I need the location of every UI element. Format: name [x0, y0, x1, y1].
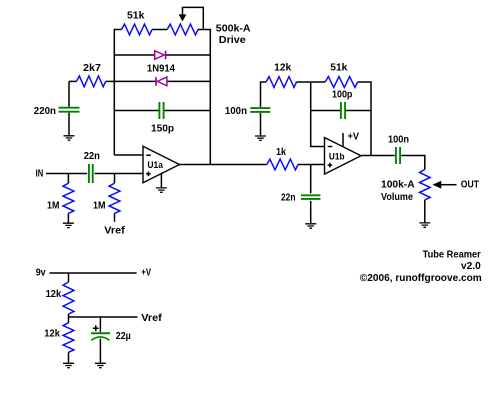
svg-text:22µ: 22µ: [116, 331, 131, 342]
svg-text:Vref: Vref: [141, 313, 162, 324]
svg-text:©2006, runoffgroove.com: ©2006, runoffgroove.com: [360, 273, 482, 284]
svg-text:IN: IN: [36, 168, 44, 179]
svg-text:1M: 1M: [93, 201, 106, 212]
svg-text:22n: 22n: [281, 192, 296, 203]
svg-text:1N914: 1N914: [147, 63, 176, 74]
svg-text:1k: 1k: [276, 147, 286, 158]
svg-text:1M: 1M: [47, 201, 59, 212]
svg-text:500k-A: 500k-A: [216, 23, 251, 34]
svg-text:12k: 12k: [46, 289, 62, 300]
svg-text:Tube Reamer: Tube Reamer: [423, 250, 481, 261]
svg-text:2k7: 2k7: [83, 63, 101, 74]
svg-text:51k: 51k: [127, 11, 145, 22]
svg-text:12k: 12k: [274, 63, 291, 74]
svg-text:+V: +V: [348, 131, 360, 142]
svg-text:U1a: U1a: [147, 160, 163, 170]
svg-text:Volume: Volume: [381, 192, 413, 203]
svg-text:100k-A: 100k-A: [381, 180, 415, 191]
svg-text:Vref: Vref: [104, 226, 125, 237]
svg-text:100n: 100n: [388, 135, 409, 146]
svg-text:U1b: U1b: [329, 151, 345, 161]
svg-text:220n: 220n: [34, 106, 56, 117]
svg-text:100n: 100n: [225, 106, 247, 117]
svg-text:Drive: Drive: [219, 35, 246, 46]
svg-text:51k: 51k: [330, 63, 347, 74]
svg-text:12k: 12k: [44, 329, 60, 340]
svg-text:22n: 22n: [84, 151, 100, 162]
svg-text:9v: 9v: [36, 268, 46, 279]
svg-text:OUT: OUT: [461, 180, 479, 191]
svg-text:v2.0: v2.0: [461, 261, 481, 272]
svg-text:+V: +V: [141, 268, 151, 279]
svg-text:150p: 150p: [151, 123, 174, 134]
svg-text:100p: 100p: [332, 90, 352, 101]
